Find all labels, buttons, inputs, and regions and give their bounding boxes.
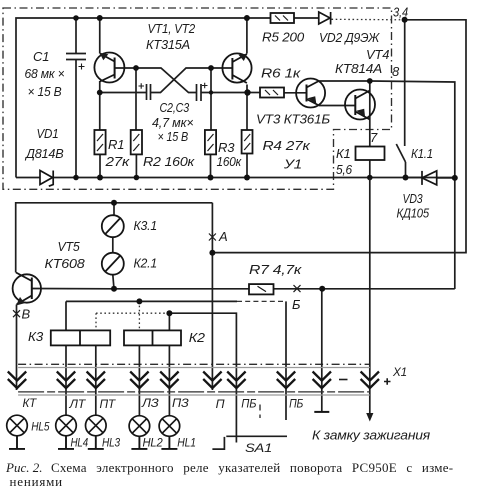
svg-text:R6 1к: R6 1к: [261, 66, 301, 81]
svg-text:Рис. 2.: Рис. 2.: [5, 460, 42, 475]
svg-text:3,4: 3,4: [393, 5, 408, 20]
svg-text:Д814В: Д814В: [24, 146, 64, 161]
svg-text:К замку зажигания: К замку зажигания: [312, 428, 430, 443]
svg-text:У1: У1: [283, 157, 302, 172]
svg-text:68 мк ×: 68 мк ×: [25, 66, 65, 81]
svg-text:HL4: HL4: [71, 436, 89, 450]
svg-text:R3: R3: [218, 140, 235, 155]
svg-text:ЛТ: ЛТ: [69, 397, 87, 411]
svg-text:К1: К1: [336, 146, 351, 161]
svg-text:ПЗ: ПЗ: [172, 396, 189, 410]
svg-text:VD1: VD1: [37, 126, 59, 141]
svg-text:Б: Б: [292, 297, 301, 312]
svg-text:HL2: HL2: [143, 436, 163, 450]
svg-text:HL3: HL3: [102, 436, 120, 450]
svg-text:27к: 27к: [104, 154, 130, 169]
svg-text:X1: X1: [392, 365, 407, 379]
svg-text:К2: К2: [189, 330, 206, 345]
svg-text:К2.1: К2.1: [134, 256, 158, 271]
svg-text:В: В: [22, 307, 31, 322]
svg-text:SA1: SA1: [245, 441, 272, 455]
svg-text:КТ: КТ: [23, 396, 38, 410]
svg-text:Схема электронного реле указат: Схема электронного реле указателей повор…: [51, 460, 453, 475]
svg-text:R4 27к: R4 27к: [263, 138, 311, 153]
svg-text:К3.1: К3.1: [134, 218, 158, 233]
svg-text:ЛЗ: ЛЗ: [141, 396, 159, 410]
svg-text:нениями: нениями: [10, 474, 63, 489]
svg-text:ПТ: ПТ: [100, 397, 117, 411]
svg-text:VT3 КТ361Б: VT3 КТ361Б: [256, 112, 331, 127]
svg-text:R7 4,7к: R7 4,7к: [249, 262, 302, 277]
svg-text:П: П: [216, 397, 225, 411]
svg-text:К3: К3: [28, 329, 44, 344]
svg-text:А: А: [218, 229, 227, 244]
svg-text:VT5: VT5: [58, 239, 81, 254]
svg-text:КТ315А: КТ315А: [146, 37, 190, 52]
svg-text:КТ608: КТ608: [45, 256, 86, 271]
svg-text:VD2 Д9ЭЖ: VD2 Д9ЭЖ: [319, 30, 380, 45]
svg-text:С1: С1: [33, 49, 49, 64]
svg-text:С2,С3: С2,С3: [160, 100, 190, 115]
svg-text:КД105: КД105: [397, 206, 430, 221]
svg-text:8: 8: [392, 64, 400, 79]
svg-text:4,7 мк×: 4,7 мк×: [152, 115, 194, 130]
svg-text:R2 160к: R2 160к: [143, 154, 195, 169]
svg-text:КТ814А: КТ814А: [335, 61, 382, 76]
svg-text:ПБ: ПБ: [241, 397, 256, 411]
svg-text:R5 200: R5 200: [262, 30, 305, 45]
svg-text:VT4: VT4: [366, 47, 389, 62]
svg-text:× 15 В: × 15 В: [28, 84, 62, 99]
svg-text:× 15 В: × 15 В: [158, 129, 189, 144]
svg-text:ПБ: ПБ: [289, 397, 303, 411]
svg-text:5,6: 5,6: [336, 162, 353, 177]
svg-text:К1.1: К1.1: [411, 146, 433, 161]
svg-text:VT1, VT2: VT1, VT2: [148, 21, 196, 36]
svg-text:HL1: HL1: [177, 436, 196, 450]
svg-text:160к: 160к: [217, 154, 242, 169]
svg-text:HL5: HL5: [31, 420, 49, 434]
svg-text:7: 7: [370, 130, 378, 145]
svg-text:VD3: VD3: [403, 191, 424, 206]
svg-text:R1: R1: [108, 137, 124, 152]
